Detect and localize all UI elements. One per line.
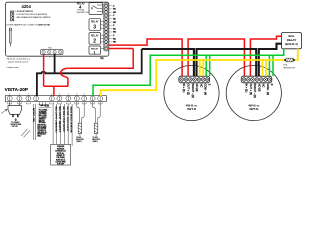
svg-text:RESISTOR: RESISTOR xyxy=(92,139,101,141)
EOL resistor caption xyxy=(284,65,296,70)
battery wires xyxy=(34,104,36,140)
relay connection lines xyxy=(101,21,105,49)
svg-text:4WT-B: 4WT-B xyxy=(249,107,259,111)
svg-text:NO: NO xyxy=(113,12,117,14)
svg-text:BELL OUTPUT + SEE NOTE 2: BELL OUTPUT + SEE NOTE 2 xyxy=(54,107,56,133)
svg-text:OUTLET: OUTLET xyxy=(12,126,18,128)
svg-text:SEE NOTE 4: SEE NOTE 4 xyxy=(37,125,46,127)
relay 3 box xyxy=(89,19,101,31)
wire black horizontal run to riser xyxy=(55,49,142,73)
svg-text:(EOLR-1): (EOLR-1) xyxy=(285,42,298,46)
wire green SD2 to EOL relay xyxy=(269,49,283,76)
svg-text:NO (3): NO (3) xyxy=(195,84,199,92)
zone wire B left xyxy=(93,102,96,123)
svg-text:IN + (1): IN + (1) xyxy=(245,84,249,93)
terminal block xyxy=(241,76,272,83)
svg-text:RESISTOR: RESISTOR xyxy=(284,67,296,69)
svg-text:INTERIOR: INTERIOR xyxy=(57,148,65,150)
svg-text:LISTED WIRE: LISTED WIRE xyxy=(56,162,66,164)
VISTA terminal circles xyxy=(7,96,103,101)
svg-text:IN/OUT - (2): IN/OUT - (2) xyxy=(191,84,195,98)
zone wire A left xyxy=(77,102,80,123)
svg-text:S: S xyxy=(208,84,212,86)
svg-text:NC: NC xyxy=(199,84,203,88)
U brackets under terminals xyxy=(8,102,103,104)
svg-text:NC: NC xyxy=(113,38,117,40)
terminal labels rotated xyxy=(245,84,274,98)
svg-text:RESISTOR: RESISTOR xyxy=(76,139,85,141)
svg-text:IN + (1): IN + (1) xyxy=(182,84,186,93)
module 4204 outline xyxy=(6,2,109,56)
wire bend marks xyxy=(21,129,30,138)
wire black SD2 - OUT to EOL relay xyxy=(259,44,282,76)
wire yellow SD2 to EOL resistor xyxy=(262,60,284,76)
terminal circles and pin labels xyxy=(104,4,107,50)
svg-text:RELAY: RELAY xyxy=(91,35,99,38)
svg-text:2: 2 xyxy=(93,39,96,45)
wire yellow SD1 to SD2 xyxy=(200,60,263,76)
svg-text:** SEE NOTES: ** SEE NOTES xyxy=(39,105,49,107)
svg-text:ONLY: ONLY xyxy=(37,135,41,137)
svg-text:RELAY: RELAY xyxy=(91,21,99,24)
svg-text:VISTA-20P: VISTA-20P xyxy=(5,87,28,92)
svg-text:NC: NC xyxy=(113,28,117,30)
notes bullets xyxy=(6,58,31,69)
svg-text:COM - (4): COM - (4) xyxy=(266,84,270,96)
svg-text:4WT-B: 4WT-B xyxy=(187,107,197,111)
svg-text:NO: NO xyxy=(113,22,117,24)
svg-text:2K EOL: 2K EOL xyxy=(93,137,98,139)
wire green SD1 to SD2 xyxy=(206,55,269,76)
svg-text:NO (3): NO (3) xyxy=(257,84,261,92)
stubs under TB1 xyxy=(49,56,50,58)
wire black 4204 TB1-3 down xyxy=(54,54,56,74)
wire yellow zone from VISTA terminal 11 to SD1 xyxy=(101,60,200,96)
svg-text:EOL: EOL xyxy=(284,65,289,67)
svg-text:1: 1 xyxy=(93,51,95,55)
black wire detector minus bus xyxy=(142,44,282,76)
EOL resistor R-A xyxy=(78,123,81,136)
wire black SD1 - OUT to SD2 - IN xyxy=(197,49,257,76)
wire green zone from VISTA terminal 10 to SD1 xyxy=(93,55,206,96)
wire labels (vertical text) under terminals 5-7 xyxy=(53,104,72,148)
wire yellow EOL resistor to EOL relay xyxy=(295,49,298,60)
terminal labels rotated xyxy=(182,84,211,98)
svg-text:• Must be connected to a: • Must be connected to a xyxy=(6,58,31,61)
svg-text:NO: NO xyxy=(113,42,117,44)
svg-text:UL LISTED: UL LISTED xyxy=(39,117,47,119)
svg-text:AUX PWR - 12VDC OUTPUT: AUX PWR - 12VDC OUTPUT xyxy=(66,107,69,133)
svg-text:7-POS DIP SWITCH: 7-POS DIP SWITCH xyxy=(15,11,33,13)
detector circle xyxy=(226,65,281,120)
svg-text:BATTERY + RED: BATTERY + RED xyxy=(32,108,35,123)
zone wire B right xyxy=(98,102,101,123)
relay 4 contact box U4 xyxy=(89,3,102,15)
svg-text:NO: NO xyxy=(113,32,117,34)
svg-text:2K EOL: 2K EOL xyxy=(76,137,81,139)
green wire zone net xyxy=(93,49,284,96)
DIP switch caption xyxy=(15,11,51,19)
smoke detector SD1 xyxy=(164,65,219,120)
terminal block xyxy=(179,76,210,83)
svg-text:PUL CONST.: PUL CONST. xyxy=(39,110,48,112)
svg-text:COM - (4): COM - (4) xyxy=(204,84,208,96)
svg-text:AUX PWR + 12VDC OUTPUT: AUX PWR + 12VDC OUTPUT xyxy=(62,107,65,133)
black wire TB1 to panel and bus riser xyxy=(37,49,142,96)
EOL resistor R-EOL xyxy=(284,58,295,62)
svg-text:OUT + (1): OUT + (1) xyxy=(249,84,253,96)
detector circle xyxy=(164,65,219,120)
svg-text:AND ENABLING/DISABLING TAMPER: AND ENABLING/DISABLING TAMPER xyxy=(17,16,51,19)
svg-text:USE BELL IN: USE BELL IN xyxy=(37,132,46,134)
pointer arrow to transformer xyxy=(1,109,7,113)
svg-text:COVER TAMPER (N.O.) SWITCH (SE: COVER TAMPER (N.O.) SWITCH (SEE NOTE) xyxy=(6,24,50,27)
resistor B caption xyxy=(92,137,101,143)
relay 2 box xyxy=(89,33,101,45)
yellow wire zone net xyxy=(101,49,298,96)
smoke detector SD2 xyxy=(226,65,281,120)
EOL resistor R-B xyxy=(94,123,97,136)
down arrow under transformer xyxy=(15,118,17,121)
svg-text:UNSWITCHED: UNSWITCHED xyxy=(10,124,22,126)
svg-text:SMOKE DETECTOR RETURN: SMOKE DETECTOR RETURN xyxy=(70,107,72,134)
VISTA terminal strip xyxy=(5,95,106,101)
DIP switch S1 xyxy=(11,11,14,21)
clamp marks between terminals 4 and 5 xyxy=(40,102,50,107)
svg-text:S: S xyxy=(270,84,274,86)
svg-text:BELL OUTPUT - SEE NOTE 2: BELL OUTPUT - SEE NOTE 2 xyxy=(58,107,60,133)
svg-text:MUST BE UL: MUST BE UL xyxy=(56,159,65,161)
transformer wires xyxy=(10,101,20,106)
EOL relay box K1 xyxy=(282,33,302,49)
svg-text:NC: NC xyxy=(113,9,117,11)
svg-text:NC: NC xyxy=(113,19,117,21)
svg-text:(15 OHMS): (15 OHMS) xyxy=(39,113,47,115)
svg-text:WIRING TO: WIRING TO xyxy=(56,155,65,157)
svg-text:FOR SETTING DEVICE ADDRESS: FOR SETTING DEVICE ADDRESS xyxy=(17,13,48,16)
TB1 terminal strip xyxy=(41,50,64,55)
note box xyxy=(51,144,71,165)
relay 4 label xyxy=(77,3,92,14)
svg-text:ULC LISTED: ULC LISTED xyxy=(37,128,47,130)
svg-text:OUT + (1): OUT + (1) xyxy=(187,84,191,96)
relay 1 box xyxy=(89,46,101,55)
transformer XFMR xyxy=(8,106,22,118)
svg-text:CONTROLS: CONTROLS xyxy=(37,130,45,132)
red wire aux power net xyxy=(44,36,282,96)
outlet caption xyxy=(10,121,22,128)
zone wire A right xyxy=(82,102,85,123)
svg-text:NC: NC xyxy=(262,84,266,88)
svg-text:4204: 4204 xyxy=(22,4,32,9)
svg-text:SOUNDER: SOUNDER xyxy=(39,111,47,113)
resistor A caption xyxy=(76,137,85,143)
svg-text:IN/OUT - (2): IN/OUT - (2) xyxy=(253,84,257,98)
terminal column TB2 xyxy=(104,3,109,51)
caption block under terminals 4-5 xyxy=(37,105,49,137)
terminal numbers xyxy=(9,93,101,95)
svg-text:power limited source: power limited source xyxy=(8,60,29,63)
svg-text:• Supervised: • Supervised xyxy=(6,66,19,69)
svg-text:RUN SEP: RUN SEP xyxy=(57,164,64,166)
wire black bus to SD1 - IN xyxy=(142,49,194,76)
wire black to VISTA terminal 4 with hop over red xyxy=(37,72,55,96)
tamper switch SW1 xyxy=(9,28,11,47)
svg-text:MBL10B: MBL10B xyxy=(39,120,45,122)
svg-text:3: 3 xyxy=(93,25,96,31)
